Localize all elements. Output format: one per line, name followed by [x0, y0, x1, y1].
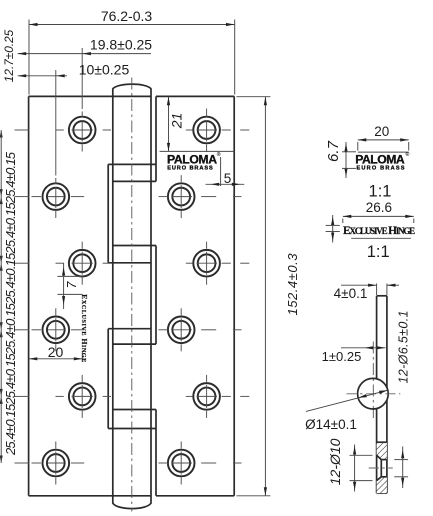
- svg-text:19.8±0.25: 19.8±0.25: [90, 37, 152, 53]
- svg-text:20: 20: [48, 344, 64, 360]
- svg-text:EURO BRASS: EURO BRASS: [357, 165, 405, 171]
- svg-text:152.4±0.3: 152.4±0.3: [285, 253, 300, 316]
- svg-text:76.2-0.3: 76.2-0.3: [101, 8, 153, 24]
- svg-text:7: 7: [65, 280, 79, 288]
- svg-text:21: 21: [169, 113, 185, 130]
- svg-text:1:1: 1:1: [367, 243, 390, 261]
- svg-text:PALOMA: PALOMA: [355, 153, 405, 167]
- svg-text:25.4±0.1525.4±0.1525.4±0.1525.: 25.4±0.1525.4±0.1525.4±0.1525.4±0.1525.4…: [3, 151, 18, 456]
- svg-text:6.7: 6.7: [325, 140, 342, 162]
- svg-text:®: ®: [217, 151, 221, 158]
- svg-text:5: 5: [224, 171, 232, 186]
- svg-text:PALOMA: PALOMA: [167, 152, 217, 166]
- svg-text:1:1: 1:1: [369, 182, 392, 200]
- svg-text:12-Ø10: 12-Ø10: [327, 438, 343, 485]
- svg-text:10±0.25: 10±0.25: [79, 61, 130, 77]
- svg-text:26.6: 26.6: [366, 200, 392, 215]
- svg-text:EXCLUSIVE HINGE: EXCLUSIVE HINGE: [343, 225, 415, 237]
- svg-text:EXCLUSIVE HINGE: EXCLUSIVE HINGE: [80, 294, 89, 362]
- svg-text:®: ®: [406, 151, 410, 158]
- svg-text:Ø14±0.1: Ø14±0.1: [305, 417, 357, 432]
- svg-text:12.7±0.25: 12.7±0.25: [2, 29, 16, 82]
- svg-text:4±0.1: 4±0.1: [334, 286, 368, 301]
- svg-text:12-Ø6.5±0.1: 12-Ø6.5±0.1: [396, 311, 410, 384]
- svg-text:1±0.25: 1±0.25: [322, 349, 362, 364]
- svg-text:20: 20: [374, 124, 389, 139]
- svg-text:EURO BRASS: EURO BRASS: [167, 165, 213, 171]
